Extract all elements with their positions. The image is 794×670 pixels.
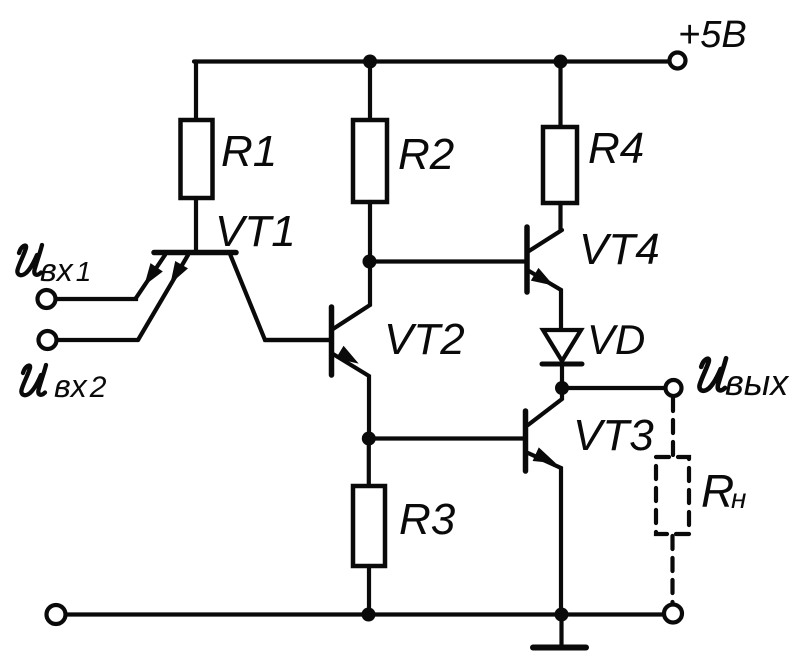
ground <box>533 615 586 648</box>
svg-text:н: н <box>731 483 746 514</box>
svg-text:VT4: VT4 <box>579 225 660 274</box>
resistor R1 <box>181 120 213 198</box>
svg-text:VT3: VT3 <box>573 411 654 460</box>
transistor VT1 (multi-emitter) <box>136 253 329 341</box>
wire node E to R3 <box>367 439 371 487</box>
label Uвых <box>699 358 790 403</box>
wire bottom rail <box>66 612 663 616</box>
wire R3 to bottom rail <box>367 566 371 615</box>
svg-text:VD: VD <box>587 316 645 363</box>
svg-text:+5В: +5В <box>678 14 747 56</box>
node E (VT2 emitter / R3 / VT3 base) <box>362 432 376 446</box>
svg-text:R2: R2 <box>398 130 454 179</box>
node D (diode / VT3 collector / output) <box>555 381 569 395</box>
svg-text:вых: вых <box>725 362 790 403</box>
wire rail to R4 <box>558 62 562 128</box>
node B (rail to R4 junction) <box>554 55 568 69</box>
svg-text:R3: R3 <box>399 495 456 544</box>
node C (R2 / VT2 collector / VT4 base) <box>363 255 377 269</box>
label Uвх2 <box>21 365 106 404</box>
terminal bottom left <box>47 605 66 624</box>
wire dashed Rн to bottom terminal <box>670 536 674 603</box>
node G (VT3 emitter to bottom rail) <box>555 608 569 622</box>
wire input 1 <box>57 298 136 299</box>
svg-text:R4: R4 <box>588 124 644 173</box>
diode VD <box>542 330 582 388</box>
load resistor Rн (dashed) <box>656 457 689 534</box>
wire node C to VT4 base <box>370 259 525 263</box>
transistor VT2 <box>265 262 370 438</box>
svg-text:R1: R1 <box>221 127 277 176</box>
resistor R2 <box>353 120 387 202</box>
transistor VT4 <box>527 227 562 330</box>
wire +5V power rail <box>194 59 668 63</box>
terminal +5V <box>670 53 686 69</box>
wire R4 to VT4 collector <box>558 203 562 230</box>
wire input 2 <box>58 338 138 342</box>
node F (R3 to bottom rail) <box>362 608 376 622</box>
terminal input 1 <box>38 290 56 308</box>
transistor VT3 <box>526 393 563 615</box>
node A (rail to R2 junction) <box>363 55 377 69</box>
wire dashed output to Rн <box>671 398 675 455</box>
terminal input 2 <box>39 331 57 349</box>
wire R1 to VT1 base <box>194 198 198 250</box>
terminal bottom right <box>664 605 682 623</box>
resistor R3 <box>353 486 385 566</box>
wire output <box>562 386 664 390</box>
svg-text:R: R <box>701 465 734 517</box>
terminal output <box>666 380 682 396</box>
wire rail to R1 <box>194 62 198 121</box>
svg-text:вх1: вх1 <box>40 252 91 288</box>
wire R2 to node C <box>368 202 372 261</box>
label Uвх1 <box>17 245 91 288</box>
resistor R4 <box>543 127 577 203</box>
wire node E to VT3 base <box>369 436 524 440</box>
svg-text:VT2: VT2 <box>384 315 465 364</box>
svg-text:VT1: VT1 <box>215 207 296 256</box>
wire rail to R2 <box>368 62 372 121</box>
svg-text:вх2: вх2 <box>54 368 107 404</box>
